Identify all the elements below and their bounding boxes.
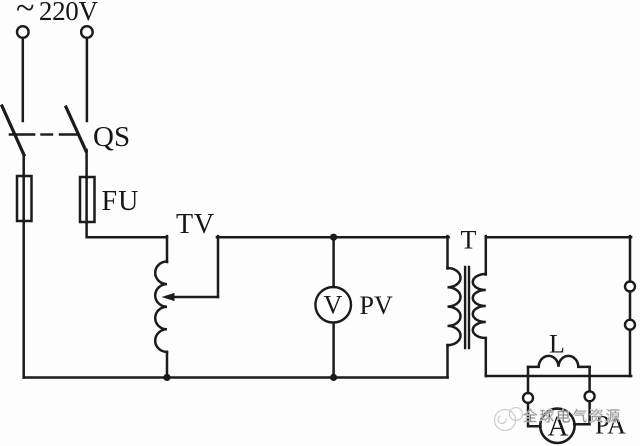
- autotransformer TV winding: [155, 262, 167, 352]
- junction: voltmeter bottom: [330, 374, 337, 381]
- wire: secondary bottom bus: [486, 375, 631, 378]
- wire: between output terminals: [629, 292, 632, 320]
- terminal L2: [81, 26, 93, 38]
- switch QS linkage dashed line: [42, 133, 77, 135]
- wire: fuse FU1 down to bottom bus: [22, 221, 25, 378]
- fuse FU1 body: [17, 176, 32, 221]
- terminal L1: [17, 26, 29, 38]
- fuse FU2 body: [80, 177, 95, 222]
- switch QS left contact bar: [10, 133, 34, 136]
- wire: TV top lead: [166, 236, 169, 262]
- fuse FU1 element wire: [22, 176, 25, 221]
- wire: right terminal down to ammeter: [574, 401, 589, 424]
- voltmeter PV: [315, 287, 351, 323]
- wire: secondary top bus: [486, 236, 631, 239]
- transformer T secondary winding: [473, 274, 486, 338]
- watermark logo: [495, 408, 523, 431]
- output terminal lower: [625, 320, 635, 330]
- svg-text:L: L: [549, 330, 565, 359]
- wire: terminal L1 down to QS left fixed contact: [22, 38, 25, 121]
- wire: inductor left stub: [527, 367, 530, 393]
- wire: voltmeter top lead: [332, 237, 335, 287]
- wire: inductor right stub: [588, 367, 591, 392]
- wire: left terminal down to ammeter: [528, 403, 541, 426]
- wire: transformer secondary bottom lead: [485, 338, 488, 376]
- fuse FU2 element wire: [85, 177, 88, 222]
- svg-text:T: T: [461, 226, 477, 255]
- svg-text:V: V: [324, 291, 343, 320]
- wire: transformer primary bottom lead: [446, 345, 449, 378]
- svg-text:PV: PV: [360, 291, 393, 320]
- wire: top bus from wiper to voltmeter junction: [217, 236, 334, 239]
- svg-text:QS: QS: [93, 121, 130, 153]
- svg-text:TV: TV: [176, 209, 215, 240]
- wire: terminal L2 down to QS right fixed contact: [86, 38, 89, 121]
- wire: bottom bus: [24, 376, 448, 379]
- transformer T primary winding: [448, 268, 461, 345]
- wire: QS right blade to fuse FU2: [85, 150, 88, 178]
- wire: QS left blade to fuse FU1: [22, 154, 25, 177]
- ammeter terminal left: [523, 393, 533, 403]
- wire: secondary right side upper: [629, 236, 632, 281]
- svg-text:FU: FU: [102, 186, 140, 217]
- wire: top bus voltmeter junction to transformer: [334, 236, 449, 239]
- svg-text:~220V: ~220V: [16, 0, 99, 27]
- ammeter PA: [540, 409, 574, 443]
- junction: voltmeter top: [330, 234, 337, 241]
- wire: transformer secondary top lead: [485, 236, 488, 274]
- switch QS left blade: [2, 106, 24, 155]
- junction: TV at bottom bus: [163, 374, 170, 381]
- TV wiper arrow: [162, 293, 219, 301]
- wire: TV bottom lead: [166, 352, 169, 378]
- wire: secondary right side lower: [629, 330, 632, 376]
- transformer T core: [465, 267, 469, 348]
- wire: voltmeter bottom lead: [332, 323, 335, 378]
- ammeter terminal right: [585, 391, 595, 401]
- wire: fuse FU2 down then right to top bus: [87, 222, 167, 237]
- output terminal upper: [625, 282, 635, 292]
- wire: wiper riser up to top bus: [217, 236, 220, 297]
- inductor L: [528, 356, 590, 367]
- wire: transformer primary top lead: [446, 236, 449, 268]
- svg-text:全球电气资源: 全球电气资源: [523, 408, 622, 426]
- switch QS right blade: [66, 107, 86, 151]
